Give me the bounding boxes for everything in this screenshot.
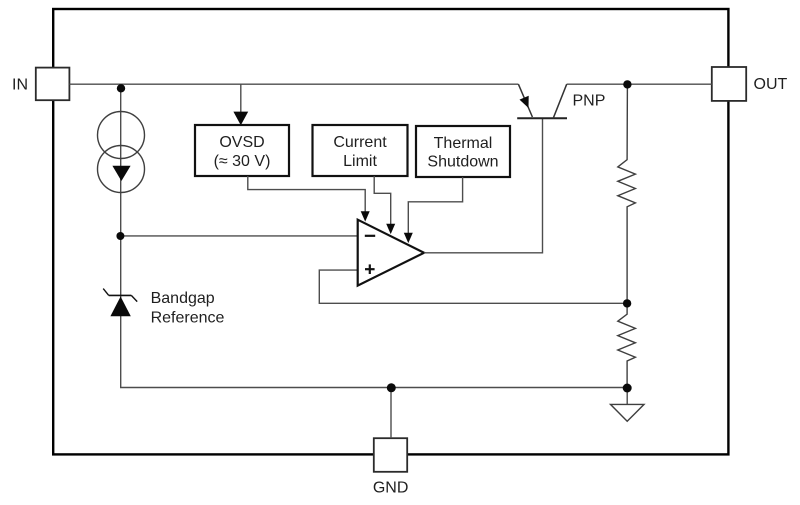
transistor Q1 emitter arrow	[520, 96, 529, 108]
svg-text:Thermal: Thermal	[434, 135, 493, 152]
current source I1 (two overlapping circles)	[98, 112, 145, 193]
wire: op-amp output to PNP base	[424, 119, 543, 253]
op-amp minus sign	[365, 235, 375, 237]
pin box GND	[374, 438, 407, 472]
resistor R1	[618, 84, 636, 303]
svg-text:GND: GND	[373, 480, 409, 497]
wire: IN rail to PNP emitter	[69, 83, 518, 85]
wire: GND riser from bottom rail to GND pin	[390, 388, 392, 438]
op-amp plus sign	[365, 264, 375, 274]
node: IN branch junction	[117, 84, 125, 92]
wire: PNP collector rail to OUT	[567, 83, 712, 85]
node: minus input tee	[116, 232, 124, 240]
transistor Q1 emitter	[518, 84, 532, 117]
node: GND riser junction	[387, 383, 396, 392]
pin box IN	[36, 68, 70, 101]
wire: Current Limit to op-amp with arrow	[374, 176, 391, 224]
svg-text:(≈ 30 V): (≈ 30 V)	[214, 153, 271, 170]
wire: OVSD to op-amp with arrow	[248, 176, 365, 212]
block OVSD	[195, 125, 289, 176]
wire: bottom rail	[120, 387, 627, 389]
wire: Thermal Shutdown to op-amp with arrow	[408, 177, 462, 233]
zener diode D1 (bandgap reference)	[103, 289, 137, 317]
op-amp U1	[358, 220, 424, 286]
svg-text:Limit: Limit	[343, 153, 377, 170]
wire: minus input from left branch to op-amp	[120, 235, 357, 237]
wire: plus input and feedback loop	[319, 270, 627, 303]
node: feedback divider midpoint	[623, 299, 631, 307]
resistor R2	[618, 303, 636, 388]
block Current Limit	[313, 125, 408, 176]
node: collector / OUT junction	[623, 80, 631, 88]
svg-text:OUT: OUT	[754, 76, 788, 93]
pin box OUT	[712, 67, 746, 101]
wire: left branch vertical (IN node down to bottom rail)	[120, 86, 122, 388]
svg-text:Bandgap: Bandgap	[151, 290, 215, 307]
transistor Q1 PNP base bar	[517, 117, 567, 119]
svg-text:OVSD: OVSD	[219, 134, 264, 151]
wire: drop from IN rail to OVSD with arrow	[240, 84, 242, 113]
svg-text:Shutdown: Shutdown	[427, 154, 498, 171]
node: divider bottom junction	[623, 384, 632, 393]
transistor Q1 collector	[553, 84, 567, 118]
IC boundary	[53, 9, 728, 454]
svg-text:PNP: PNP	[573, 93, 606, 110]
svg-text:Reference: Reference	[151, 310, 225, 327]
svg-text:Current: Current	[333, 134, 387, 151]
svg-text:IN: IN	[12, 77, 28, 94]
ground symbol	[611, 388, 645, 421]
block Thermal Shutdown	[416, 126, 510, 177]
